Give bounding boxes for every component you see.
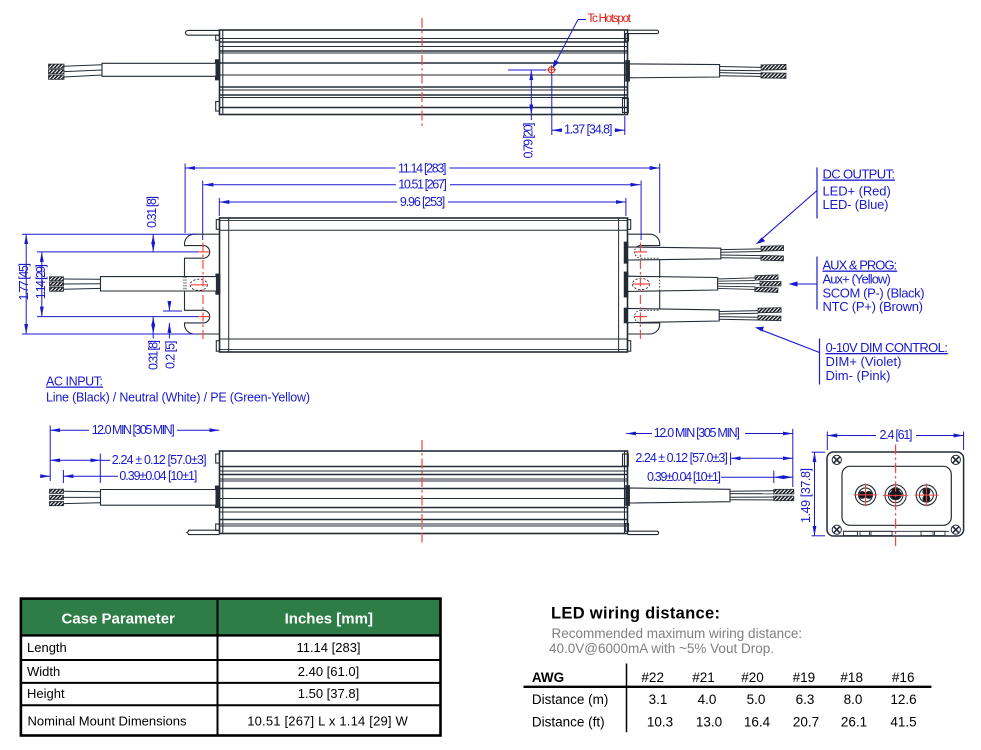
svg-text:10.51 [267] L x 1.14 [29] W: 10.51 [267] L x 1.14 [29] W [247,714,408,729]
svg-text:1.77 [45]: 1.77 [45] [17,263,31,301]
svg-text:#21: #21 [692,670,715,685]
centerline (end view) [895,445,897,547]
DC output cable sleeve (bottom view right) [626,486,730,506]
svg-text:2.24 ± 0.12 [57.0±3]: 2.24 ± 0.12 [57.0±3] [635,451,727,465]
enclosure body (plan view) [216,218,630,352]
svg-text:Aux+ (Yellow): Aux+ (Yellow) [823,272,891,287]
svg-text:1.14 [29]: 1.14 [29] [34,264,48,299]
svg-text:10.3: 10.3 [647,715,673,730]
dimension 0.31 [8] (bottom) [146,317,198,339]
svg-text:#20: #20 [741,670,764,685]
svg-text:5.0: 5.0 [747,692,766,707]
DC output cable sleeve (plan view, top right) [624,242,721,263]
svg-text:AUX & PROG:: AUX & PROG: [823,258,898,273]
hidden slot edges under right sleeves (dotted) [635,246,660,323]
table grid [21,599,441,736]
right mounting bracket tab (top view, top-right) [625,30,658,41]
left top bracket foot (bottom view) [216,454,220,463]
Tc hotspot marker [547,65,556,74]
dimension 12.0 MIN [305 MIN] (right) [626,429,793,487]
AC input cable sleeve (plan view left) [101,274,220,294]
centerline (bottom view) [421,440,423,544]
dimension 0.31 [8] (top) [146,234,198,252]
output gland connector (middle) [885,485,906,506]
svg-text:2.40 [61.0]: 2.40 [61.0] [298,664,359,679]
svg-text:3.1: 3.1 [649,692,668,707]
svg-text:4.0: 4.0 [698,692,717,707]
AC input cable sleeve (bottom view left) [101,486,220,507]
dimension 2.4 [61] [827,432,963,451]
svg-text:Line (Black) / Neutral (White): Line (Black) / Neutral (White) / PE (Gre… [46,391,310,405]
left mounting bracket tab (top view, top-left) [185,30,219,40]
DC output wires (plan view) [721,246,784,261]
subtitle [549,626,802,656]
svg-text:9.96 [253]: 9.96 [253] [400,195,445,209]
centerline right bracket (plan view) [633,243,650,341]
left bracket centre hole (hidden, dashed) [190,279,207,290]
svg-text:#22: #22 [641,670,664,685]
DC output wires (top view right) [720,64,787,78]
svg-text:Distance (ft): Distance (ft) [532,715,605,730]
svg-text:0.2 [5]: 0.2 [5] [164,341,178,370]
svg-text:Recommended maximum wiring dis: Recommended maximum wiring distance: [552,626,803,641]
case parameter table [21,599,441,736]
svg-text:12.0 MIN [305 MIN]: 12.0 MIN [305 MIN] [654,426,740,440]
svg-text:40.0V@6000mA with ~5% Vout Dro: 40.0V@6000mA with ~5% Vout Drop. [549,641,774,656]
svg-text:DC OUTPUT:: DC OUTPUT: [823,167,896,182]
svg-text:11.14 [283]: 11.14 [283] [398,161,447,175]
AWG table rules [524,664,932,733]
svg-text:0.79 [20]: 0.79 [20] [522,123,536,159]
AWG table row: Distance (m) [532,692,917,707]
svg-text:Inches [mm]: Inches [mm] [285,611,373,628]
svg-text:#19: #19 [793,670,816,685]
svg-text:0.39±0.04 [10±1]: 0.39±0.04 [10±1] [119,469,197,483]
svg-text:12.6: 12.6 [890,692,916,707]
svg-text:LED wiring distance:: LED wiring distance: [551,605,720,623]
right mounting bracket (plan view) with two slots [628,234,660,334]
AC input wires (top view left) [49,64,103,79]
AUX wires (plan view) [718,275,781,293]
left mounting bracket tab (bottom view, bottom-left) [186,524,219,535]
svg-text:Width: Width [27,664,60,679]
svg-text:2.24 ± 0.12 [57.0±3]: 2.24 ± 0.12 [57.0±3] [112,453,207,467]
svg-text:41.5: 41.5 [890,715,916,730]
connector crosshair middle (red) [883,494,908,496]
dimension 12.0 MIN [305 MIN] (left) [50,426,219,482]
end view inner face plate [842,466,951,525]
svg-text:26.1: 26.1 [841,715,867,730]
svg-text:12.0 MIN [305 MIN]: 12.0 MIN [305 MIN] [92,423,175,437]
svg-text:Case Parameter: Case Parameter [61,611,175,628]
svg-text:Tc Hotspot: Tc Hotspot [588,13,632,25]
AWG table row: Distance (ft) [532,715,917,730]
right mounting bracket tab (bottom view, bottom-right) [625,524,658,535]
dimension 0.39±0.04 [10±1] (right) [721,471,793,484]
svg-text:Height: Height [27,686,65,701]
DC output wires (bottom view right) [730,489,794,500]
svg-text:1.49 [37.8]: 1.49 [37.8] [799,468,813,523]
svg-text:Length: Length [27,640,67,655]
dimension 11.14 [283] [185,164,660,234]
svg-text:0.39±0.04 [10±1]: 0.39±0.04 [10±1] [647,470,721,484]
svg-text:AC INPUT:: AC INPUT: [46,375,103,389]
svg-text:16.4: 16.4 [744,715,771,730]
svg-text:NTC (P+) (Brown): NTC (P+) (Brown) [823,299,924,314]
DIM leader arrow [755,327,820,353]
end view outer case [827,452,964,536]
DC OUTPUT leader arrow [756,191,817,245]
dimension 1.49 [37.8] [812,452,826,536]
right top bracket foot (bottom view) [623,454,629,466]
DIM wires (plan view) [719,308,781,321]
right bracket centre hole (hidden, dashed) [632,278,649,289]
svg-text:DIM+ (Violet): DIM+ (Violet) [826,354,902,369]
svg-text:Nominal Mount Dimensions: Nominal Mount Dimensions [28,714,187,729]
svg-text:#16: #16 [892,670,915,685]
svg-text:2.4 [61]: 2.4 [61] [880,428,913,442]
DC output cable sleeve (top view right) [626,61,720,81]
svg-text:AWG: AWG [532,670,564,685]
aux gland connector (right) [916,485,936,505]
table rows [27,640,187,729]
AC input wires (plan view left) [50,277,101,292]
svg-text:0-10V DIM CONTROL:: 0-10V DIM CONTROL: [826,340,948,355]
dimension 0.2 [5] (bottom) [163,302,182,339]
AC input wires (bottom view left) [50,489,101,506]
LED wiring distance heading [524,605,932,733]
dimension 1.37 [34.8] [552,74,625,135]
dimension 2.24 ± 0.12 [57.0±3] (right) [731,453,793,466]
svg-text:11.14 [283]: 11.14 [283] [296,640,360,655]
AUX cable sleeve (plan view, middle right) [624,272,717,297]
corner screw bottom-right [951,525,960,534]
svg-text:1.50 [37.8]: 1.50 [37.8] [298,686,359,701]
svg-text:0.31 [8]: 0.31 [8] [147,340,161,370]
centerline left bracket (plan view) [191,243,210,341]
dimension 1.14 [29] [37,252,146,317]
connector crosshair right (red) [915,483,939,506]
svg-text:20.7: 20.7 [793,715,819,730]
header row (green) [21,599,441,636]
AWG table header row [532,670,915,685]
AUX leader arrow [789,281,818,286]
corner screw top-left [832,455,841,464]
AUX & PROG label block [817,257,925,315]
svg-text:0.31 [8]: 0.31 [8] [145,196,159,228]
connector crosshair left (red) [854,483,878,506]
svg-text:1.37 [34.8]: 1.37 [34.8] [564,123,613,137]
svg-text:13.0: 13.0 [696,715,722,730]
dimension 1.77 [45] [22,234,146,334]
DIM cable sleeve (plan view, bottom right) [624,308,719,323]
dimension 0.79 [20] [508,70,547,120]
centerline (top view) [421,18,423,126]
corner screw bottom-left [832,525,841,534]
corner screw top-right [951,455,960,464]
svg-text:Dim- (Pink): Dim- (Pink) [826,368,891,383]
dimension 2.24 ± 0.12 [57.0±3] (left) [50,454,110,484]
svg-text:10.51 [267]: 10.51 [267] [398,178,447,192]
dimension 0.39±0.04 [10±1] (left) [41,470,118,483]
AC INPUT label [46,375,310,405]
DC OUTPUT label block [817,167,895,219]
left bottom bracket foot (top view) [216,102,220,112]
AC gland connector (left) [855,485,875,505]
svg-text:Distance (m): Distance (m) [532,692,609,707]
AC input cable sleeve (top view left) [102,60,220,80]
svg-text:#18: #18 [840,670,863,685]
enclosure body (finned side view) [220,30,628,115]
dimension 10.51 [267] [203,181,641,241]
dimension 9.96 [253] [219,198,626,216]
right bottom bracket foot (top view) [623,99,629,113]
svg-text:8.0: 8.0 [844,692,863,707]
enclosure body (finned side view, bottom) [220,451,628,534]
Tc hotspot leader [552,20,586,69]
0-10V DIM CONTROL label block [820,339,948,385]
left mounting bracket (plan view) with two slots [184,234,219,334]
svg-text:LED- (Blue): LED- (Blue) [823,197,889,212]
svg-text:6.3: 6.3 [796,692,815,707]
terminal strip detail (bottom edge of end view) [843,531,949,535]
